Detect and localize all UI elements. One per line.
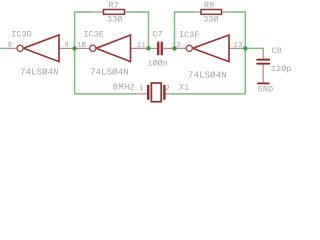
svg-text:1ØØn: 1ØØn <box>147 58 167 68</box>
svg-text:11: 11 <box>137 42 146 50</box>
node A junction dot (pin9/pin10/R7/X1) <box>72 46 76 50</box>
svg-text:1Ø: 1Ø <box>77 41 86 50</box>
wire R8 left elbow down to net C7 right <box>175 12 197 48</box>
svg-text:74LSØ4N: 74LSØ4N <box>20 66 59 77</box>
svg-text:74LSØ4N: 74LSØ4N <box>90 66 129 77</box>
capacitor C7 plates <box>157 42 163 55</box>
wire IC3F pin13 to C8 elbow <box>245 48 263 51</box>
svg-text:33Ø: 33Ø <box>107 14 122 24</box>
capacitor C8 plates and leads <box>256 52 270 83</box>
svg-text:1: 1 <box>139 85 144 93</box>
svg-text:12Øp: 12Øp <box>271 64 291 74</box>
node C junction dot (pin12/C7 right/R8 left) <box>172 46 176 50</box>
svg-text:R8: R8 <box>204 0 214 10</box>
inverter gate IC3D (74LS04) pointing left, output bubble pin 8, input pin 9 <box>5 35 75 62</box>
svg-text:R7: R7 <box>109 0 119 10</box>
svg-text:IC3E: IC3E <box>84 30 104 40</box>
wire net OSC2: R8 right elbow down to X1 pin2 rail <box>225 12 245 94</box>
ground GND symbol bar <box>257 83 269 85</box>
svg-text:9: 9 <box>64 42 69 50</box>
inverter gate IC3E pointing left, output bubble pin 10, input pin 11 <box>75 35 158 62</box>
svg-text:8MHz: 8MHz <box>113 83 136 93</box>
svg-text:IC3F: IC3F <box>179 30 199 40</box>
wire bottom rail crystal to right rail <box>170 93 246 95</box>
svg-text:74LSØ4N: 74LSØ4N <box>188 69 227 80</box>
node D junction dot (pin13/R8 right/X1 pin2/C8) <box>243 46 247 50</box>
svg-text:GND: GND <box>258 85 273 95</box>
svg-text:X1: X1 <box>179 83 189 93</box>
resistor R8 body and leads <box>197 10 226 15</box>
svg-text:13: 13 <box>234 42 243 50</box>
wire input stub at left edge <box>0 47 5 49</box>
wire R7 right elbow down to net C7 left <box>128 12 148 48</box>
svg-text:33Ø: 33Ø <box>203 14 218 24</box>
svg-text:C7: C7 <box>153 29 163 39</box>
resistor R7 body and leads <box>93 10 129 15</box>
node B junction dot (pin11/C7 left/R7 right) <box>146 46 150 50</box>
svg-text:2: 2 <box>166 85 171 93</box>
inverter gate IC3F pointing left, output bubble pin 12, input pin 13 <box>163 35 246 62</box>
crystal X1 body, electrode plates and leads <box>138 83 170 102</box>
svg-text:8: 8 <box>8 42 13 50</box>
svg-text:C8: C8 <box>272 46 282 56</box>
svg-text:IC3D: IC3D <box>11 29 31 39</box>
wire bottom rail left to crystal <box>75 93 138 95</box>
wire net OSC1: IC3E out / IC3D in / R7 left / X1 pin1, vertical rail + top elbow <box>75 12 93 94</box>
